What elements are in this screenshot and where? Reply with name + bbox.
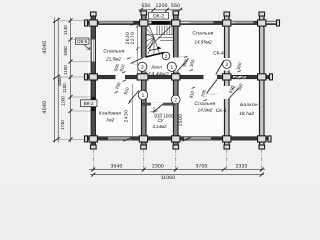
svg-text:1100: 1100 — [63, 65, 68, 75]
svg-text:4,14м2: 4,14м2 — [153, 124, 168, 129]
svg-text:1200: 1200 — [61, 96, 66, 106]
door leaf V4 upper — [216, 61, 224, 75]
junction V4H3 — [223, 136, 231, 142]
svg-text:1: 1 — [142, 93, 145, 99]
door gap in V2 — [141, 58, 147, 72]
cap V4 bottom — [224, 145, 230, 149]
svg-text:СК-4: СК-4 — [213, 51, 224, 57]
svg-text:14,9м2: 14,9м2 — [198, 108, 213, 113]
window in H3 bedroom-south — [184, 137, 211, 139]
window in H2 balcony — [233, 76, 246, 78]
leader OK-6 — [84, 45, 90, 50]
svg-text:ВК-2: ВК-2 — [84, 101, 94, 106]
junction V1H2 — [89, 74, 97, 80]
door leaf V4 lower — [229, 88, 239, 99]
bottom chain dim line — [89, 169, 265, 171]
svg-text:11060: 11060 — [161, 175, 175, 180]
wall H1 top exterior — [86, 21, 279, 24]
interior dim line bedroom NW — [137, 26, 139, 75]
svg-text:1: 1 — [170, 65, 173, 71]
junction V1H3 — [89, 136, 97, 142]
svg-text:1740: 1740 — [60, 120, 65, 130]
svg-text:Балкон: Балкон — [240, 102, 258, 108]
bottom total dim line — [90, 174, 264, 176]
junction V2bH3 — [139, 136, 147, 142]
cap V2 top — [141, 11, 147, 15]
door leaf hall-west — [131, 58, 144, 64]
svg-text:910 1000: 910 1000 — [154, 114, 174, 119]
partition H4 bathroom — [142, 103, 175, 105]
svg-text:ОК-6: ОК-6 — [77, 39, 88, 44]
svg-text:ОК-2: ОК-2 — [153, 14, 164, 20]
svg-text:2: 2 — [174, 98, 177, 104]
door gap in V4 upper — [224, 58, 230, 71]
paper background — [0, 0, 320, 180]
svg-text:Холл: Холл — [150, 65, 162, 70]
door circle 2 stair — [162, 52, 170, 60]
wall V2b storeroom-right lower — [142, 76, 147, 148]
cap H2 right — [270, 74, 273, 80]
svg-text:2270: 2270 — [130, 32, 136, 45]
cap V1 bottom — [91, 145, 97, 149]
total ticks — [91, 173, 263, 177]
svg-text:2: 2 — [225, 62, 228, 68]
door gap in H4 — [151, 103, 163, 106]
svg-text:4040: 4040 — [42, 40, 48, 53]
junction V4H2 — [223, 74, 231, 80]
door dim ticks hall-west — [115, 56, 242, 101]
cap H2 left — [85, 74, 88, 80]
svg-text:2: 2 — [141, 65, 144, 71]
junction V4H1 — [223, 20, 231, 26]
junction V1H1 — [89, 20, 97, 26]
leader lines from windows — [58, 21, 92, 140]
left outer ticks — [53, 18, 60, 142]
wall V2 stair-left upper — [142, 12, 147, 79]
wall H2 middle — [86, 75, 272, 79]
label OK-2 box — [149, 13, 169, 19]
window W-top-mid in H1 — [190, 22, 214, 24]
label VK-2 box — [81, 100, 98, 107]
door leaf hall-east — [178, 59, 189, 72]
dim line top — [139, 9, 183, 11]
left outer dim line — [54, 18, 56, 143]
label OK-6 box — [76, 38, 90, 44]
junction V5H2 — [258, 74, 266, 80]
plan interior — [88, 22, 262, 140]
wall V5 right exterior — [260, 13, 265, 148]
cap V3 bottom — [173, 145, 179, 149]
svg-text:Спальня: Спальня — [192, 31, 213, 37]
junction V3H1 — [172, 20, 180, 26]
svg-text:Спальня: Спальня — [103, 49, 124, 55]
svg-text:1850: 1850 — [63, 46, 68, 56]
window slash top-left — [131, 21, 142, 25]
bottom chain ticks — [91, 168, 263, 172]
cap V5 top — [259, 12, 265, 16]
cap V4 top — [224, 12, 230, 16]
svg-text:18,7м2: 18,7м2 — [239, 111, 254, 116]
left inner dim line — [70, 18, 72, 143]
staircase treads — [146, 26, 174, 41]
door gap in V4 lower — [224, 86, 230, 99]
svg-text:1200: 1200 — [156, 3, 168, 9]
svg-text:2430: 2430 — [124, 110, 130, 123]
top wall solid segments — [86, 21, 262, 24]
svg-text:550: 550 — [171, 3, 180, 9]
junction V2H2 — [137, 74, 148, 80]
cap V5 bottom — [259, 145, 265, 149]
door circle 2 bathroom — [171, 95, 180, 104]
svg-text:3700: 3700 — [196, 164, 208, 170]
window OK-6 glazing in V1 — [92, 40, 95, 62]
door circle 2 hall-west — [138, 62, 147, 71]
wall H3 bottom exterior — [86, 137, 271, 140]
cap H3 left — [85, 136, 88, 142]
junction V2H1 — [140, 20, 148, 26]
svg-text:2: 2 — [165, 54, 168, 59]
svg-text:Спальня: Спальня — [194, 101, 215, 107]
cap H3 right — [268, 136, 271, 142]
svg-text:21,9м2: 21,9м2 — [105, 57, 121, 62]
svg-text:14,95м2: 14,95м2 — [194, 40, 212, 45]
interior dim line storeroom — [132, 84, 134, 136]
door gap in H2 bedroom-south — [204, 75, 218, 79]
svg-text:СК-4: СК-4 — [216, 108, 227, 114]
wall V4 — [225, 13, 230, 148]
window W-top-left in H1 — [99, 22, 134, 24]
axis lines bottom — [93, 149, 261, 171]
ticks top dim — [139, 8, 182, 12]
door leaf H2 hall-down — [129, 91, 139, 103]
cap H1 left — [85, 20, 88, 26]
window in H3 storeroom — [108, 137, 131, 139]
door gap in V3 upper — [173, 58, 179, 72]
staircase winders — [146, 26, 160, 56]
svg-text:3540: 3540 — [111, 164, 123, 170]
cap V1 top — [91, 12, 97, 16]
door leaf H2 bedroom-south — [207, 80, 218, 94]
door circle 1 hall-east — [167, 62, 176, 71]
junction V3H3 — [172, 136, 180, 142]
stair arrow — [148, 44, 160, 51]
svg-text:7м2: 7м2 — [106, 118, 115, 123]
svg-text:14,44м2: 14,44м2 — [148, 72, 168, 78]
door circle 1 H2 — [138, 90, 148, 100]
svg-text:1140: 1140 — [63, 25, 68, 35]
door leaf H4 bathroom — [153, 104, 163, 113]
svg-text:1100: 1100 — [62, 83, 67, 93]
wall V1 left exterior — [91, 13, 96, 149]
cap V2b bottom — [141, 145, 147, 149]
svg-text:2300: 2300 — [152, 164, 164, 170]
vent VK-2 dark in V1 — [91, 97, 95, 111]
window OK-2 bar — [152, 21, 170, 24]
top wall bottom edge — [86, 23, 279, 25]
wall V3 stair-right — [174, 12, 179, 148]
cap V3 top — [173, 11, 179, 15]
svg-text:4040: 4040 — [42, 100, 48, 113]
door circle 2 V4 — [223, 60, 231, 68]
stair break line — [146, 53, 165, 58]
svg-text:Кладовая: Кладовая — [99, 111, 122, 116]
left inner ticks — [69, 19, 73, 142]
door gap in H2 hall — [116, 75, 126, 79]
window W-top-right in H1 — [234, 22, 254, 24]
svg-text:2320: 2320 — [236, 164, 248, 170]
svg-text:1500: 1500 — [178, 114, 184, 127]
stair flight arrow diagonal — [153, 27, 171, 45]
junction V3H2 — [172, 74, 180, 80]
junction V5H1 — [258, 20, 266, 26]
junction V5H3 — [258, 136, 266, 142]
cap H1 right — [277, 20, 280, 26]
